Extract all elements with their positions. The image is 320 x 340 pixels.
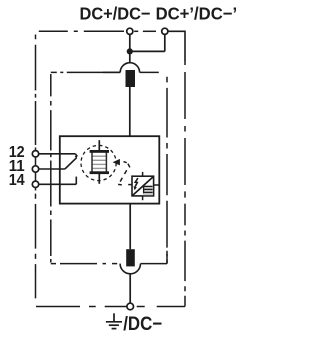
svg-text:DC+/DC−: DC+/DC− bbox=[80, 4, 151, 24]
svg-text:DC+’/DC−’: DC+’/DC−’ bbox=[156, 4, 238, 24]
svg-text:/DC−: /DC− bbox=[123, 314, 162, 335]
svg-text:14: 14 bbox=[9, 172, 25, 189]
